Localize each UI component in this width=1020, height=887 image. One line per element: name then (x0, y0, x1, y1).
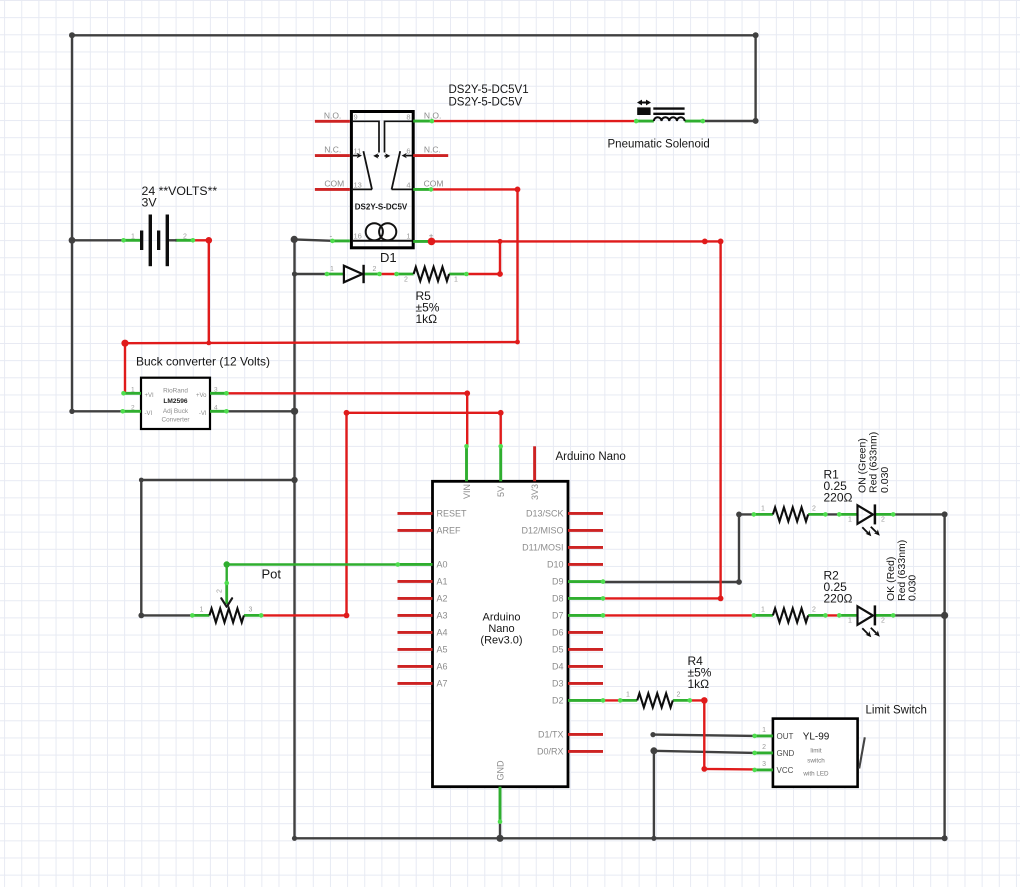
svg-text:Limit Switch: Limit Switch (866, 704, 927, 716)
svg-text:YL-99: YL-99 (803, 732, 830, 743)
node VCC corner (701, 766, 707, 772)
battery BAT1 (124, 215, 193, 267)
svg-text:AREF: AREF (437, 526, 462, 536)
wire relay coil+ horizontal (432, 241, 721, 598)
wire relay pin16 to gnd rail (294, 239, 332, 240)
node R4 corner (701, 697, 708, 704)
svg-text:A2: A2 (437, 594, 448, 604)
svg-text:0.030: 0.030 (907, 575, 919, 601)
node buck -VI right junction (291, 408, 298, 415)
svg-text:11: 11 (354, 147, 362, 156)
wire-end caps (bright green) (120, 119, 895, 824)
wire buck +Vo to VIN (227, 393, 468, 446)
svg-text:Converter: Converter (161, 417, 190, 424)
node 5V wire bends (344, 613, 350, 619)
relay coil leg pin1 (413, 240, 431, 243)
svg-text:N.O.: N.O. (324, 110, 341, 120)
svg-text:16: 16 (354, 231, 362, 240)
svg-text:2: 2 (812, 506, 816, 513)
svg-text:1: 1 (761, 506, 765, 513)
arduino top legs VIN 5V (green) 3V3 (red) (465, 446, 468, 481)
wire D7 to R2 (603, 614, 754, 616)
svg-text:4: 4 (214, 404, 218, 411)
node gnd rail right end (942, 835, 948, 841)
relay left legs N.O./N.C./COM (unconnected, red) (315, 120, 350, 123)
wire battery pin2 to +24V node (193, 240, 209, 343)
svg-text:Arduino Nano: Arduino Nano (556, 451, 626, 463)
svg-text:COM: COM (424, 179, 444, 189)
wire arduino GND down (499, 822, 501, 839)
svg-text:1: 1 (848, 618, 852, 625)
node battery+ bend (206, 237, 213, 244)
svg-text:-VI: -VI (199, 411, 207, 417)
svg-text:9: 9 (354, 113, 358, 122)
svg-text:3: 3 (249, 607, 253, 614)
svg-text:4: 4 (406, 180, 410, 189)
svg-text:220Ω: 220Ω (824, 491, 853, 505)
resistor R5 (397, 267, 467, 284)
svg-text:1kΩ: 1kΩ (416, 312, 438, 326)
wire relay COM to +24V rail (124, 189, 518, 393)
svg-text:Nano: Nano (488, 623, 514, 635)
svg-text:N.O.: N.O. (424, 110, 441, 120)
wire R2 to LED2 (825, 614, 839, 616)
svg-text:DS2Y-S-DC5V: DS2Y-S-DC5V (355, 203, 408, 212)
svg-text:2: 2 (881, 618, 885, 625)
svg-text:1: 1 (200, 607, 204, 614)
svg-text:A1: A1 (437, 577, 448, 587)
svg-text:+Vo: +Vo (196, 393, 207, 399)
node top-right bend (753, 32, 759, 38)
wire YL-99 OUT stub (653, 735, 755, 736)
svg-text:D6: D6 (552, 628, 564, 638)
svg-text:VIN: VIN (462, 484, 472, 499)
svg-text:13: 13 (354, 180, 362, 189)
svg-text:220Ω: 220Ω (824, 592, 853, 606)
svg-text:2: 2 (677, 692, 681, 699)
svg-text:LM2596: LM2596 (163, 398, 188, 405)
wire coil+ down to R5 (466, 241, 500, 274)
potentiometer Pot (192, 565, 261, 623)
wire D2 to R4 (603, 699, 620, 701)
arduino nano U1 (398, 446, 604, 821)
node LED1 right bend (942, 511, 948, 517)
svg-text:8: 8 (406, 113, 410, 122)
wire pot pin1 to gnd rail (141, 480, 294, 615)
svg-text:DS2Y-5-DC5V: DS2Y-5-DC5V (449, 96, 523, 108)
relay right leg COM pin4 (413, 188, 431, 191)
node yl99 gnd rail bend (651, 836, 656, 841)
svg-text:0.030: 0.030 (879, 467, 891, 493)
node coil+ rail dot (702, 239, 708, 245)
svg-text:1: 1 (330, 266, 334, 273)
svg-text:(Rev3.0): (Rev3.0) (480, 635, 522, 647)
svg-text:1: 1 (848, 517, 852, 524)
pot wiper wire from A0 node (225, 565, 227, 584)
svg-text:RioRand: RioRand (163, 388, 188, 395)
node COM corner (515, 187, 521, 193)
svg-text:A4: A4 (437, 628, 448, 638)
svg-text:RESET: RESET (437, 509, 468, 519)
svg-text:Red (633nm): Red (633nm) (868, 432, 880, 493)
relay right leg N.C. pin6 (unconnected) (413, 154, 448, 157)
wire LED2 to right gnd rail (893, 614, 944, 616)
svg-text:D8: D8 (552, 594, 564, 604)
wire LED1 to right gnd rail (893, 514, 944, 838)
wire left rail (battery - / buck -VI) (72, 35, 123, 411)
node diode branch bend (292, 271, 297, 276)
svg-text:GND: GND (496, 760, 506, 781)
svg-text:1: 1 (406, 231, 410, 240)
svg-text:N.C.: N.C. (424, 145, 441, 155)
pneumatic solenoid L1 (636, 100, 703, 122)
wire diode to R5 (380, 273, 397, 275)
node D9 wire bends (736, 579, 742, 585)
node gnd rail left bend (292, 836, 297, 841)
svg-text:1: 1 (626, 692, 630, 699)
svg-text:D0/RX: D0/RX (537, 747, 564, 757)
svg-text:1kΩ: 1kΩ (688, 677, 710, 691)
relay internal contacts left pole (352, 121, 380, 152)
svg-text:D12/MISO: D12/MISO (521, 526, 563, 536)
node coil+ R5 branch bends (498, 239, 503, 244)
svg-text:1: 1 (762, 727, 766, 734)
wire diode anode branch (295, 273, 327, 275)
svg-text:D4: D4 (552, 662, 564, 672)
svg-text:2: 2 (183, 234, 187, 241)
wire relay N.O. to solenoid (432, 120, 636, 122)
svg-text:D1/TX: D1/TX (538, 730, 564, 740)
svg-text:VCC: VCC (777, 766, 794, 775)
wire bottom gnd rail (295, 837, 945, 839)
svg-text:Pot: Pot (262, 567, 282, 582)
svg-text:A3: A3 (437, 611, 448, 621)
svg-text:Arduino: Arduino (483, 611, 521, 623)
node pot gnd junction (291, 477, 297, 483)
wire YL-99 GND to gnd rail (654, 751, 755, 839)
svg-text:Adj Buck: Adj Buck (163, 408, 189, 415)
node battery+ tee (206, 341, 211, 346)
LED2 (OK red) (839, 605, 893, 637)
svg-text:1: 1 (131, 386, 135, 393)
svg-text:1: 1 (454, 277, 458, 284)
svg-text:2: 2 (373, 266, 377, 273)
svg-text:3V3: 3V3 (530, 484, 540, 500)
relay right leg N.O. pin8 (413, 120, 432, 123)
node COM bottom bend (515, 340, 520, 345)
node coil+ corner (718, 239, 724, 245)
svg-text:limit: limit (810, 747, 821, 754)
wire R1 to LED1 (825, 513, 839, 515)
svg-text:D11/MOSI: D11/MOSI (522, 543, 563, 553)
svg-text:D13/SCK: D13/SCK (526, 509, 564, 519)
arduino bottom leg GND (499, 787, 502, 822)
svg-text:with LED: with LED (802, 770, 829, 777)
svg-text:GND: GND (777, 749, 795, 758)
node OUT wire end (650, 732, 655, 737)
svg-text:D3: D3 (552, 679, 564, 689)
svg-text:3V: 3V (142, 195, 158, 209)
svg-text:COM: COM (324, 179, 344, 189)
svg-text:A0: A0 (437, 560, 448, 570)
relay D1 (DS2Y-5-DC5V) (315, 110, 448, 247)
wire top rail (battery - to solenoid) (72, 35, 756, 121)
svg-text:A7: A7 (437, 679, 448, 689)
svg-text:2: 2 (762, 744, 766, 751)
buck converter U2 (LM2596) (123, 378, 227, 429)
wire buck -VI right to gnd rail (227, 410, 295, 412)
svg-text:2: 2 (881, 517, 885, 524)
LED1 (ON green) (839, 504, 893, 536)
node pot A0 junction (green) (224, 561, 230, 567)
svg-text:3: 3 (762, 761, 766, 768)
svg-text:Buck converter (12 Volts): Buck converter (12 Volts) (136, 354, 270, 368)
wire pot pin3 to 5V (261, 413, 501, 616)
relay internal contacts right pole (385, 121, 413, 152)
svg-text:D2: D2 (552, 696, 564, 706)
svg-text:2: 2 (131, 404, 135, 411)
limit switch YL-99 (755, 719, 865, 787)
svg-text:Pneumatic Solenoid: Pneumatic Solenoid (608, 138, 710, 150)
resistor R1 (754, 506, 826, 522)
node pot left bends (138, 613, 144, 619)
svg-text:D7: D7 (552, 611, 564, 621)
relay coil leg pin16 (332, 239, 350, 242)
node buck -VI bend (69, 409, 74, 414)
node VIN wire bend (464, 390, 470, 396)
limit switch lever (859, 737, 865, 768)
node battery- junction (69, 237, 76, 244)
wire battery pin1 (72, 239, 124, 241)
svg-text:D9: D9 (552, 577, 564, 587)
wire pot wiper to A0 (227, 563, 398, 565)
resistor R4 (620, 692, 690, 708)
svg-text:1: 1 (131, 234, 135, 241)
node D8 wire end (718, 596, 724, 602)
wire solenoid to right rail (703, 120, 756, 122)
node relay coil+ junction (428, 238, 436, 246)
wire D9 to R1 (603, 514, 754, 582)
relay coil (352, 240, 413, 242)
svg-text:-VI: -VI (145, 411, 153, 417)
svg-text:D10: D10 (547, 560, 564, 570)
diode D2 (flyback) (327, 265, 380, 283)
svg-text:1: 1 (761, 607, 765, 614)
svg-text:A6: A6 (437, 662, 448, 672)
node LED2 right junction (941, 612, 948, 619)
arduino right legs (568, 512, 603, 515)
svg-text:2: 2 (217, 589, 224, 593)
svg-text:D1: D1 (380, 250, 397, 265)
arduino left legs (398, 512, 433, 515)
node arduino GND junction (496, 835, 503, 842)
node relay pin16 junction (291, 236, 298, 243)
wire R4 to YL-99 VCC (690, 700, 755, 769)
node top-left bend (69, 32, 75, 38)
svg-text:N.C.: N.C. (324, 145, 341, 155)
svg-text:6: 6 (406, 147, 410, 156)
svg-text:ON (Green): ON (Green) (856, 438, 868, 493)
resistor R2 (754, 607, 826, 623)
node GND wire junction (650, 747, 657, 754)
svg-text:5V: 5V (496, 486, 506, 497)
svg-text:switch: switch (807, 757, 825, 764)
svg-text:+VI: +VI (145, 393, 155, 399)
svg-text:2: 2 (812, 607, 816, 614)
node solenoid right bend (753, 118, 759, 124)
svg-text:A5: A5 (437, 645, 448, 655)
node +24V buck junction (121, 340, 128, 347)
svg-text:2: 2 (404, 277, 408, 284)
svg-text:DS2Y-5-DC5V1: DS2Y-5-DC5V1 (449, 84, 529, 96)
wire mid gnd vertical (293, 239, 295, 838)
svg-text:OUT: OUT (777, 732, 794, 741)
svg-text:3: 3 (214, 386, 218, 393)
svg-text:D5: D5 (552, 645, 564, 655)
